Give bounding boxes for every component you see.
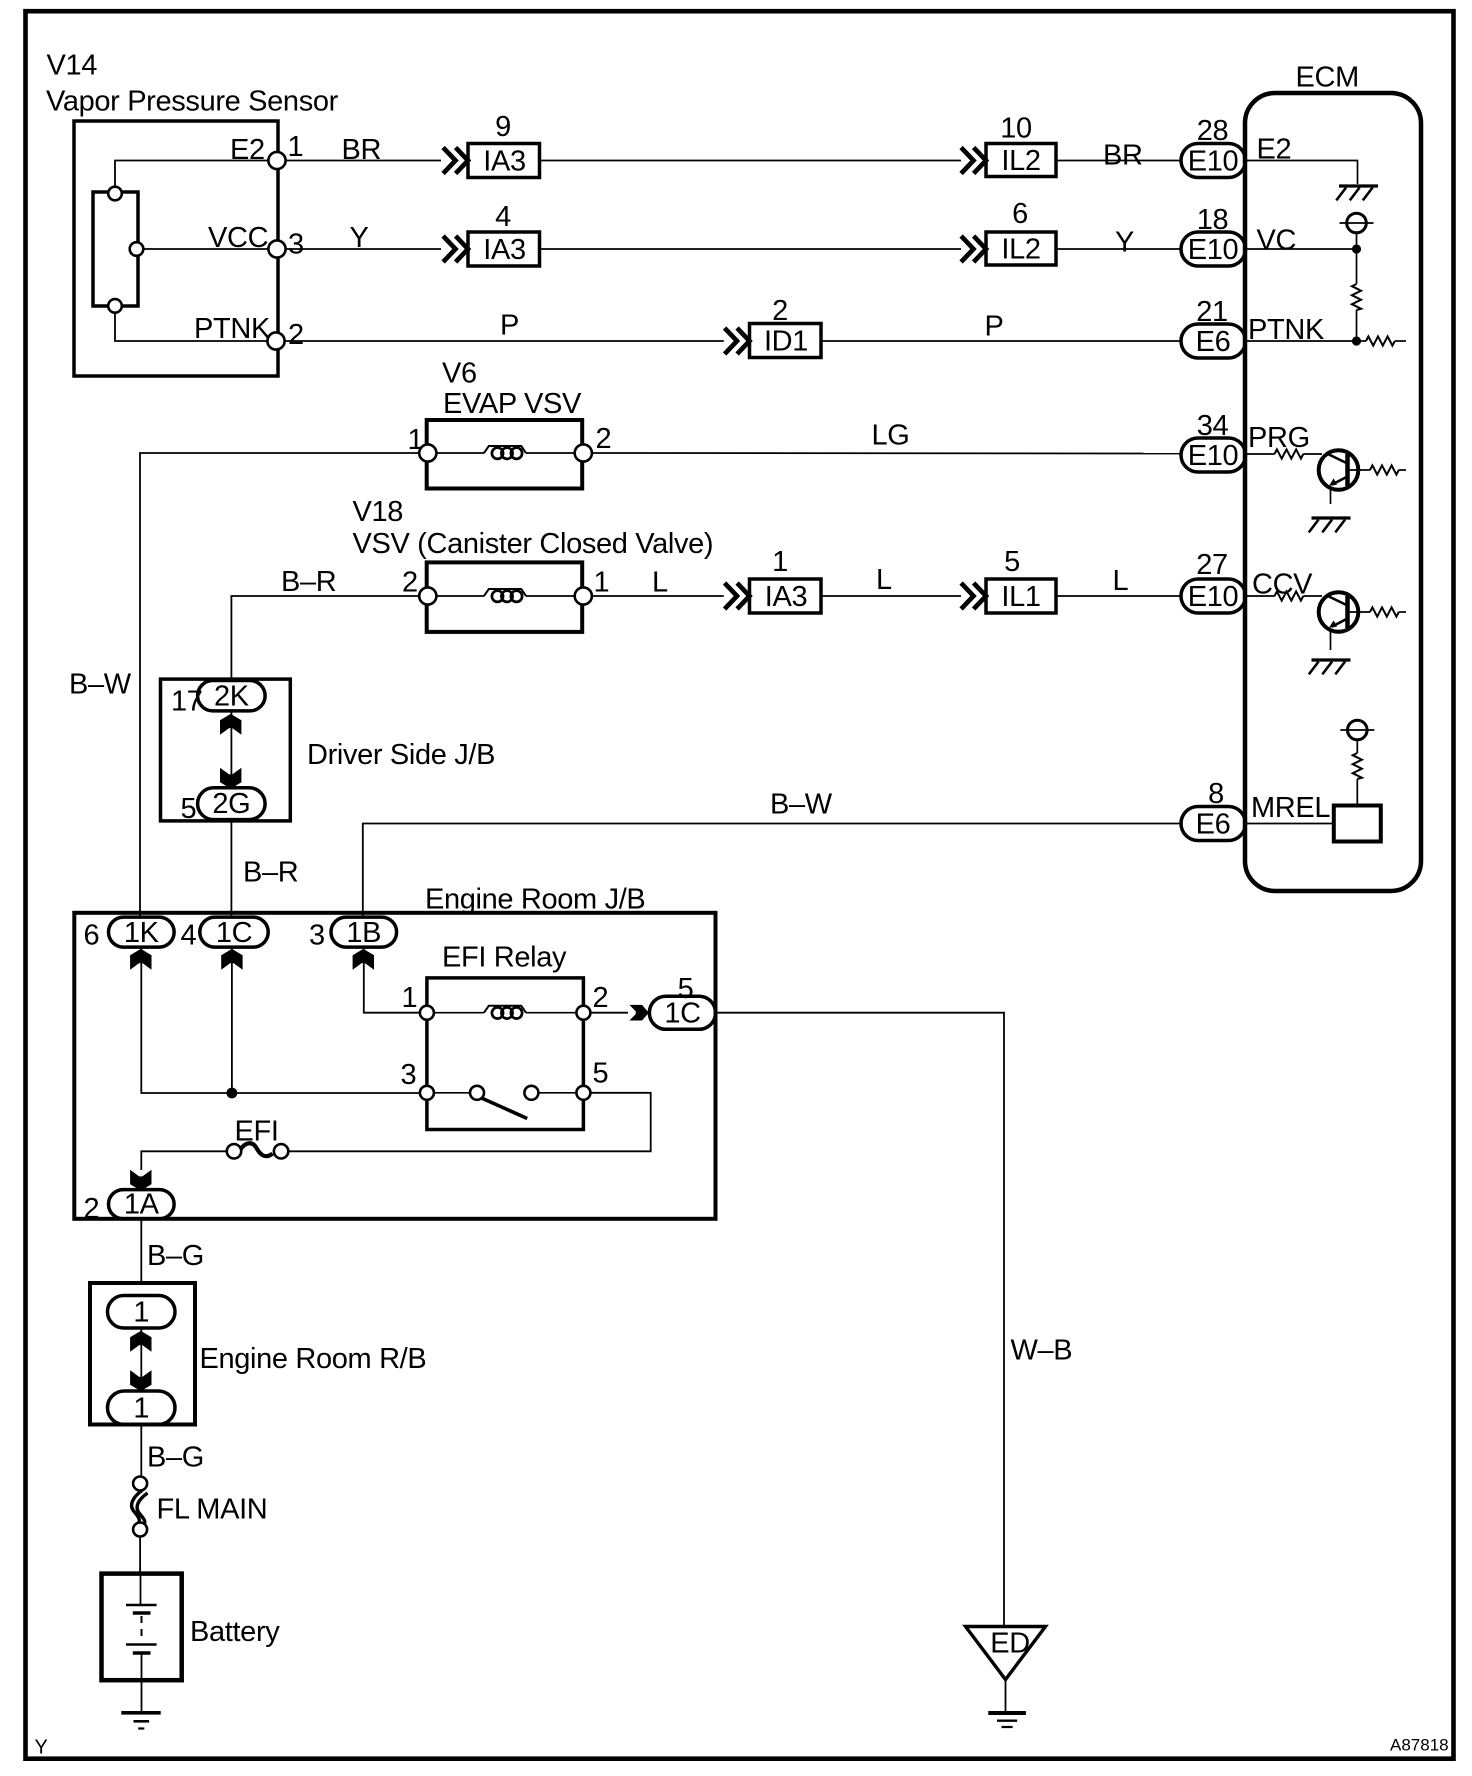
pin 1 terminal E2 bbox=[268, 152, 285, 169]
relay switch contact a bbox=[470, 1086, 484, 1100]
svg-text:Battery: Battery bbox=[190, 1616, 280, 1648]
svg-text:Y: Y bbox=[1115, 227, 1134, 259]
relay coil wire bbox=[434, 1012, 484, 1014]
svg-text:ECM: ECM bbox=[1296, 62, 1359, 94]
svg-text:1: 1 bbox=[133, 1297, 149, 1329]
wire PRG collector resistor bbox=[1348, 469, 1371, 471]
svg-text:VC: VC bbox=[1257, 225, 1297, 257]
wire PRG emitter lead bbox=[1330, 488, 1332, 505]
svg-text:1B: 1B bbox=[346, 917, 381, 949]
wire BR IL2 to E10 bbox=[1056, 160, 1181, 162]
svg-text:1A: 1A bbox=[124, 1189, 160, 1221]
svg-text:ID1: ID1 bbox=[764, 326, 808, 358]
svg-text:VCC: VCC bbox=[208, 222, 268, 254]
svg-text:28: 28 bbox=[1197, 115, 1229, 147]
wire L V18 to IA3 bbox=[592, 595, 724, 597]
arrow down 1A bbox=[130, 1170, 151, 1191]
svg-text:2: 2 bbox=[772, 295, 788, 327]
junction dot bbox=[227, 1088, 238, 1099]
svg-text:LG: LG bbox=[872, 420, 910, 452]
wire Y IL2 to E10 bbox=[1056, 248, 1181, 250]
sensor element node mid bbox=[130, 242, 144, 256]
sensor element node bottom bbox=[108, 299, 122, 313]
svg-text:E2: E2 bbox=[230, 134, 265, 166]
ground E2 internal bbox=[1336, 186, 1378, 200]
arrow up 1K bbox=[130, 949, 151, 970]
wire MREL internal bbox=[1245, 823, 1334, 825]
fusible link FL MAIN bbox=[133, 1477, 147, 1491]
wire P ID1 to E6 bbox=[821, 340, 1181, 342]
svg-text:IA3: IA3 bbox=[483, 234, 525, 266]
svg-text:2: 2 bbox=[593, 982, 609, 1014]
relay box Engine Room R/B bbox=[90, 1283, 195, 1425]
svg-text:Driver Side J/B: Driver Side J/B bbox=[307, 739, 495, 771]
resistor VC to PTNK bbox=[1356, 249, 1358, 284]
ground battery bbox=[121, 1711, 160, 1715]
ECM connector E6 pin 21 bbox=[1181, 324, 1246, 358]
wire Y sensor to IA3 bbox=[286, 248, 441, 250]
power symbol VC bbox=[1340, 213, 1374, 233]
pin 2 V6 bbox=[575, 444, 592, 461]
arrow up 2K bbox=[220, 714, 241, 735]
relay pin 2 bbox=[576, 1006, 590, 1020]
wire B-R V18 pin2 to 2K bbox=[231, 596, 419, 681]
svg-text:1: 1 bbox=[408, 424, 424, 456]
svg-text:B–W: B–W bbox=[69, 669, 132, 701]
junction dot VC bbox=[1352, 244, 1361, 253]
resistor CCV base bbox=[1245, 595, 1275, 597]
svg-text:Engine Room R/B: Engine Room R/B bbox=[200, 1343, 427, 1375]
wire battery to ground bbox=[141, 1653, 143, 1712]
wire CCV collector resistor bbox=[1348, 611, 1371, 613]
resistor PTNK internal bbox=[1357, 340, 1367, 342]
svg-text:L: L bbox=[876, 564, 892, 596]
svg-text:6: 6 bbox=[84, 920, 100, 952]
svg-text:E10: E10 bbox=[1188, 581, 1239, 613]
wire FL MAIN to battery bbox=[139, 1537, 141, 1575]
connector 1B pin 3 bbox=[331, 917, 397, 947]
svg-text:IA3: IA3 bbox=[765, 581, 807, 613]
junction box Engine Room J/B bbox=[74, 913, 715, 1219]
relay switch contact b bbox=[524, 1086, 538, 1100]
resistor MREL internal bbox=[1353, 753, 1362, 779]
transistor PRG bbox=[1319, 450, 1359, 490]
transistor CCV bbox=[1319, 592, 1359, 632]
svg-text:5: 5 bbox=[593, 1058, 609, 1090]
chevrons into IL1 bbox=[961, 583, 986, 609]
relay switch blade bbox=[482, 1098, 528, 1119]
wire relay pin2 to arrow bbox=[590, 1012, 628, 1014]
svg-text:ED: ED bbox=[990, 1628, 1030, 1660]
chevrons into IA3 row2 bbox=[443, 236, 468, 262]
svg-text:Vapor Pressure Sensor: Vapor Pressure Sensor bbox=[46, 86, 339, 118]
svg-text:3: 3 bbox=[288, 229, 304, 261]
svg-text:BR: BR bbox=[1103, 140, 1143, 172]
ground CCV bbox=[1309, 660, 1351, 674]
svg-text:V6: V6 bbox=[442, 358, 477, 390]
connector 2K pin 17 bbox=[198, 681, 266, 711]
wire power to junction bbox=[1356, 233, 1358, 249]
svg-text:2K: 2K bbox=[214, 681, 250, 713]
svg-text:Engine Room J/B: Engine Room J/B bbox=[425, 884, 645, 916]
svg-text:A87818: A87818 bbox=[1390, 1736, 1449, 1755]
wire LG V6 to E10 bbox=[592, 452, 1181, 455]
connector IL1 pin 5 bbox=[986, 579, 1056, 613]
svg-text:E10: E10 bbox=[1188, 146, 1239, 178]
relay pin 3 bbox=[420, 1086, 434, 1100]
relay pin 5 bbox=[576, 1086, 590, 1100]
wire 1C down to junction bbox=[231, 947, 233, 1093]
svg-text:5: 5 bbox=[181, 793, 197, 825]
solenoid V6 EVAP VSV box bbox=[427, 420, 583, 489]
relay switch wire left bbox=[434, 1092, 470, 1094]
pin 1 V6 bbox=[419, 444, 436, 461]
svg-text:3: 3 bbox=[401, 1059, 417, 1091]
svg-text:IL1: IL1 bbox=[1001, 581, 1040, 613]
svg-text:PTNK: PTNK bbox=[194, 313, 271, 345]
wire 1K down to switch row bbox=[141, 947, 420, 1093]
solenoid V18 box bbox=[427, 562, 583, 632]
wire ED to ground bbox=[1005, 1680, 1007, 1713]
wire B-R 2G to 1C bbox=[230, 820, 232, 918]
ECM connector E10 pin 18 bbox=[1181, 232, 1246, 266]
pin 1 V18 bbox=[575, 587, 592, 604]
svg-text:B–W: B–W bbox=[770, 789, 833, 821]
chevrons into IA3 row1 bbox=[443, 148, 468, 174]
svg-text:18: 18 bbox=[1197, 204, 1229, 236]
arrow right into 1C bbox=[629, 1005, 649, 1021]
wire B-W MREL to 1B bbox=[363, 824, 1181, 918]
svg-text:3: 3 bbox=[309, 920, 325, 952]
svg-text:17: 17 bbox=[171, 686, 203, 718]
svg-text:1: 1 bbox=[288, 131, 304, 163]
svg-text:21: 21 bbox=[1196, 296, 1228, 328]
connector IA3 pin 4 bbox=[468, 232, 540, 266]
sensor element node top bbox=[108, 187, 122, 201]
svg-text:B–G: B–G bbox=[147, 1442, 204, 1474]
chevrons into IL2 row1 bbox=[961, 148, 986, 174]
connector 2G pin 5 bbox=[198, 788, 266, 820]
svg-text:1: 1 bbox=[133, 1393, 149, 1425]
svg-text:IA3: IA3 bbox=[483, 146, 525, 178]
svg-text:EFI Relay: EFI Relay bbox=[442, 942, 567, 974]
svg-text:1C: 1C bbox=[216, 917, 252, 949]
wire 2K to 2G bbox=[230, 711, 232, 788]
wire B-G 1A to R/B bbox=[140, 1219, 142, 1284]
wire relay to resistor bbox=[1356, 779, 1358, 806]
svg-text:MREL: MREL bbox=[1251, 792, 1330, 824]
svg-text:VSV (Canister Closed Valve): VSV (Canister Closed Valve) bbox=[353, 528, 714, 560]
svg-text:BR: BR bbox=[342, 134, 382, 166]
wire VCC internal bbox=[143, 248, 269, 250]
svg-text:FL MAIN: FL MAIN bbox=[157, 1494, 268, 1526]
wire B-G R/B to FL MAIN bbox=[140, 1425, 142, 1478]
svg-text:B–G: B–G bbox=[147, 1240, 204, 1272]
pin 2 V18 bbox=[419, 587, 436, 604]
arrow up 1B bbox=[353, 949, 374, 970]
connector 1A pin 2 bbox=[109, 1190, 175, 1219]
svg-text:V14: V14 bbox=[47, 50, 98, 82]
svg-text:4: 4 bbox=[495, 201, 511, 233]
connector 1 top bbox=[108, 1296, 176, 1329]
relay box EFI Relay bbox=[427, 978, 584, 1130]
svg-text:P: P bbox=[985, 311, 1004, 343]
connector 1C pin 4 bbox=[200, 917, 268, 947]
chevrons into IA3 CCV bbox=[725, 583, 750, 609]
resistor PRG base bbox=[1245, 453, 1275, 455]
fuse EFI bbox=[274, 1144, 288, 1158]
wire Y IA3 to IL2 bbox=[540, 248, 962, 250]
wire PTNK inside ECM bbox=[1245, 340, 1357, 342]
svg-text:Y: Y bbox=[350, 222, 369, 254]
wire fuse to 1A bbox=[141, 1151, 226, 1170]
svg-text:P: P bbox=[500, 310, 519, 342]
svg-text:5: 5 bbox=[678, 973, 694, 1005]
svg-text:E6: E6 bbox=[1196, 809, 1231, 841]
connector IL2 pin 6 bbox=[986, 232, 1056, 265]
connector IA3 pin 1 bbox=[750, 579, 822, 613]
svg-text:L: L bbox=[1113, 565, 1129, 597]
wire between R/B connectors bbox=[140, 1328, 142, 1391]
pin 3 terminal VCC bbox=[268, 240, 285, 257]
connector IL2 pin 10 bbox=[986, 144, 1056, 177]
svg-text:PRG: PRG bbox=[1248, 422, 1310, 454]
ECM connector E10 pin 27 bbox=[1181, 579, 1246, 613]
svg-text:8: 8 bbox=[1208, 778, 1224, 810]
svg-text:2: 2 bbox=[596, 423, 612, 455]
svg-text:27: 27 bbox=[1196, 549, 1228, 581]
svg-text:1: 1 bbox=[402, 982, 418, 1014]
connector 1K pin 6 bbox=[109, 917, 175, 947]
svg-text:Y: Y bbox=[35, 1737, 48, 1759]
pin 2 terminal PTNK bbox=[267, 332, 284, 349]
ground ED triangle bbox=[966, 1627, 1046, 1680]
chevrons into IL2 row2 bbox=[961, 236, 986, 262]
svg-text:6: 6 bbox=[1012, 198, 1028, 230]
sensor V14 box bbox=[74, 121, 278, 376]
relay coil box MREL internal bbox=[1334, 806, 1381, 842]
arrow up 1C bbox=[221, 949, 242, 970]
svg-text:L: L bbox=[652, 567, 668, 599]
wire V6 pin1 to B-W run bbox=[140, 453, 419, 917]
svg-text:W–B: W–B bbox=[1011, 1335, 1073, 1367]
connector 1C pin 5 output bbox=[649, 996, 715, 1029]
battery symbol bbox=[140, 1574, 142, 1604]
svg-text:B–R: B–R bbox=[281, 566, 336, 598]
svg-text:1: 1 bbox=[594, 567, 610, 599]
power symbol MREL bbox=[1340, 720, 1374, 740]
svg-text:34: 34 bbox=[1197, 410, 1229, 442]
ground ED bbox=[988, 1711, 1026, 1715]
wire E2 internal bbox=[115, 161, 269, 188]
svg-text:4: 4 bbox=[181, 920, 197, 952]
svg-text:9: 9 bbox=[495, 111, 511, 143]
wire relay pin5 to EFI fuse bbox=[289, 1093, 651, 1152]
wire CCV emitter lead bbox=[1330, 630, 1332, 651]
ECM connector E10 pin 28 bbox=[1181, 144, 1246, 178]
ground PRG bbox=[1309, 518, 1351, 532]
wire W-B 1C to ED bbox=[716, 1013, 1005, 1627]
svg-text:5: 5 bbox=[1004, 546, 1020, 578]
arrow down R/B bbox=[130, 1370, 151, 1391]
chevrons into ID1 bbox=[725, 328, 750, 354]
svg-text:2: 2 bbox=[288, 319, 304, 351]
wire BR IA3 to IL2 bbox=[540, 160, 962, 162]
svg-text:EFI: EFI bbox=[235, 1116, 279, 1148]
wire E2 inside ECM bbox=[1245, 161, 1358, 185]
wire L IL1 to E10 bbox=[1056, 595, 1181, 597]
svg-text:1K: 1K bbox=[124, 917, 160, 949]
wire 1B down to relay pin1 bbox=[364, 947, 421, 1013]
svg-text:2: 2 bbox=[84, 1193, 100, 1225]
svg-text:IL2: IL2 bbox=[1001, 145, 1040, 177]
arrow down 2G bbox=[220, 768, 241, 789]
svg-text:2G: 2G bbox=[212, 788, 250, 820]
wire PTNK internal bbox=[115, 313, 268, 342]
svg-text:IL2: IL2 bbox=[1001, 234, 1040, 266]
junction dot PTNK bbox=[1352, 336, 1361, 345]
connector 1 bottom bbox=[108, 1391, 176, 1425]
connector IA3 pin 9 bbox=[468, 144, 540, 178]
svg-text:V18: V18 bbox=[353, 496, 404, 528]
wire P sensor to chevrons bbox=[285, 340, 724, 342]
svg-text:E6: E6 bbox=[1196, 326, 1231, 358]
svg-text:EVAP VSV: EVAP VSV bbox=[443, 388, 582, 420]
coil V18 bbox=[437, 595, 485, 597]
arrow up R/B bbox=[130, 1331, 151, 1352]
wire L IA3 to IL1 bbox=[821, 595, 961, 597]
relay switch wire right bbox=[538, 1092, 576, 1094]
coil V6 bbox=[437, 452, 485, 454]
connector ID1 pin 2 bbox=[750, 324, 822, 358]
svg-text:E10: E10 bbox=[1188, 234, 1239, 266]
svg-text:10: 10 bbox=[1000, 113, 1032, 145]
svg-text:E10: E10 bbox=[1188, 440, 1239, 472]
relay pin 1 bbox=[420, 1006, 434, 1020]
ECM box bbox=[1245, 93, 1421, 891]
sensor element bbox=[93, 192, 138, 306]
wire BR sensor to IA3 bbox=[286, 160, 441, 162]
junction box Driver Side J/B bbox=[161, 679, 291, 821]
ECM connector E10 pin 34 bbox=[1181, 438, 1246, 472]
battery box bbox=[102, 1574, 182, 1681]
svg-text:B–R: B–R bbox=[243, 857, 298, 889]
wire VC inside ECM bbox=[1245, 248, 1357, 250]
svg-text:2: 2 bbox=[402, 567, 418, 599]
ECM connector E6 pin 8 bbox=[1181, 807, 1246, 841]
svg-text:1: 1 bbox=[772, 546, 788, 578]
